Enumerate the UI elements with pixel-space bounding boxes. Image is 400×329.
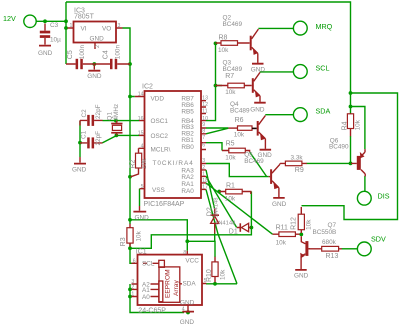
- svg-text:OSC1: OSC1: [151, 118, 169, 125]
- svg-text:PIC16F84AP: PIC16F84AP: [144, 201, 185, 208]
- svg-text:100n: 100n: [79, 45, 86, 60]
- svg-text:R11: R11: [276, 224, 288, 231]
- svg-text:R9: R9: [295, 167, 304, 174]
- svg-text:22pF: 22pF: [95, 104, 102, 119]
- svg-text:EEPROM: EEPROM: [165, 269, 172, 298]
- svg-text:5: 5: [204, 278, 207, 284]
- svg-text:IC2: IC2: [142, 83, 153, 90]
- svg-text:3: 3: [118, 23, 121, 29]
- svg-text:RA0: RA0: [181, 188, 194, 195]
- svg-text:D1: D1: [229, 229, 238, 236]
- svg-text:2: 2: [202, 165, 205, 171]
- svg-text:12V: 12V: [3, 14, 16, 23]
- svg-text:R13: R13: [326, 253, 339, 260]
- svg-text:10k: 10k: [225, 154, 236, 161]
- svg-text:Array: Array: [173, 280, 180, 296]
- svg-text:R7: R7: [225, 73, 234, 80]
- svg-text:7805T: 7805T: [74, 14, 95, 21]
- svg-text:SCL: SCL: [316, 63, 330, 72]
- svg-text:10k: 10k: [135, 230, 142, 241]
- svg-text:GND: GND: [72, 166, 87, 173]
- svg-text:24-C65P: 24-C65P: [138, 308, 166, 315]
- svg-text:R2: R2: [129, 159, 136, 168]
- svg-text:1: 1: [202, 171, 205, 177]
- svg-text:4MHz: 4MHz: [113, 104, 120, 121]
- svg-text:C4: C4: [103, 50, 110, 59]
- svg-text:RB5: RB5: [181, 109, 194, 116]
- svg-text:2: 2: [95, 45, 101, 48]
- svg-text:GND: GND: [272, 201, 287, 208]
- svg-text:100n: 100n: [115, 45, 122, 60]
- svg-text:SDA: SDA: [316, 106, 331, 115]
- svg-text:GND: GND: [180, 299, 195, 306]
- svg-text:MCLR\: MCLR\: [151, 146, 171, 153]
- svg-text:BC469: BC469: [223, 21, 243, 28]
- svg-text:VCC: VCC: [185, 257, 199, 264]
- svg-text:VI: VI: [81, 26, 87, 33]
- svg-text:GND: GND: [250, 106, 265, 113]
- svg-text:8: 8: [202, 128, 205, 134]
- svg-text:MRQ: MRQ: [316, 22, 333, 31]
- svg-text:10k: 10k: [225, 89, 236, 96]
- svg-text:R1: R1: [226, 182, 235, 189]
- svg-text:DIS: DIS: [378, 191, 390, 200]
- svg-text:SDA: SDA: [183, 281, 197, 288]
- svg-text:A0: A0: [142, 294, 150, 301]
- svg-text:13: 13: [202, 96, 208, 102]
- svg-text:R4: R4: [342, 121, 349, 130]
- svg-text:6: 6: [202, 142, 205, 148]
- svg-text:9: 9: [202, 122, 205, 128]
- svg-text:5: 5: [141, 184, 144, 190]
- svg-text:RB0: RB0: [181, 144, 194, 151]
- svg-text:R6: R6: [235, 117, 244, 124]
- svg-text:IC1: IC1: [136, 248, 147, 255]
- svg-text:17: 17: [202, 184, 208, 190]
- svg-text:680k: 680k: [322, 239, 337, 246]
- svg-text:10k: 10k: [355, 119, 362, 130]
- svg-text:10k: 10k: [305, 219, 312, 230]
- svg-text:BC550B: BC550B: [313, 229, 337, 236]
- svg-text:RA1: RA1: [181, 181, 194, 188]
- svg-text:1: 1: [70, 23, 73, 29]
- svg-text:D2: D2: [206, 207, 213, 216]
- svg-text:16: 16: [138, 116, 144, 122]
- svg-text:3.3k: 3.3k: [291, 154, 304, 161]
- svg-text:T0CKI/RA4: T0CKI/RA4: [152, 160, 193, 167]
- svg-text:GND: GND: [38, 50, 53, 57]
- svg-text:R3: R3: [120, 237, 127, 246]
- svg-text:18: 18: [202, 178, 208, 184]
- svg-text:11: 11: [202, 108, 207, 114]
- svg-text:C2: C2: [81, 109, 88, 118]
- svg-text:10k: 10k: [218, 47, 229, 54]
- svg-text:SCL: SCL: [142, 261, 155, 268]
- svg-text:3: 3: [202, 158, 205, 164]
- svg-text:22pF: 22pF: [95, 131, 102, 146]
- svg-text:4: 4: [141, 144, 144, 150]
- svg-text:14: 14: [138, 92, 144, 98]
- svg-text:10µ: 10µ: [50, 36, 61, 43]
- svg-text:4: 4: [182, 306, 185, 312]
- svg-text:10k: 10k: [276, 239, 287, 246]
- svg-text:12: 12: [202, 102, 208, 108]
- svg-text:10k: 10k: [219, 269, 226, 280]
- svg-text:10k: 10k: [141, 158, 148, 169]
- svg-text:GND: GND: [87, 73, 102, 80]
- svg-text:RB1: RB1: [181, 137, 194, 144]
- svg-text:OSC2: OSC2: [151, 133, 169, 140]
- svg-text:GND: GND: [251, 66, 266, 73]
- svg-text:RA2: RA2: [181, 174, 194, 181]
- svg-text:1N4148: 1N4148: [215, 221, 235, 227]
- svg-text:VDD: VDD: [151, 95, 165, 102]
- svg-text:1: 1: [131, 292, 134, 298]
- svg-text:GND: GND: [135, 214, 150, 221]
- svg-text:R12: R12: [291, 217, 298, 230]
- svg-text:C3: C3: [50, 22, 59, 29]
- svg-text:15: 15: [138, 131, 144, 137]
- svg-text:GND: GND: [180, 319, 195, 326]
- svg-text:10k: 10k: [234, 132, 245, 139]
- svg-text:1N4148: 1N4148: [213, 197, 219, 217]
- svg-text:GND: GND: [90, 36, 105, 43]
- svg-text:SDV: SDV: [371, 234, 386, 243]
- svg-text:BC489: BC489: [223, 66, 243, 73]
- svg-text:GND: GND: [258, 152, 273, 159]
- svg-text:VSS: VSS: [152, 187, 165, 194]
- svg-text:6: 6: [133, 259, 136, 265]
- svg-text:VO: VO: [102, 26, 111, 33]
- svg-text:R8: R8: [219, 34, 228, 41]
- svg-text:R5: R5: [226, 141, 235, 148]
- svg-text:2: 2: [131, 285, 134, 291]
- svg-text:BC490: BC490: [329, 143, 349, 150]
- svg-text:C1: C1: [80, 130, 87, 139]
- svg-text:10k: 10k: [225, 196, 236, 203]
- svg-text:C5: C5: [67, 50, 74, 59]
- svg-text:R10: R10: [206, 269, 213, 282]
- svg-text:BC469: BC469: [244, 158, 264, 165]
- svg-text:7: 7: [202, 135, 205, 141]
- svg-text:BC489: BC489: [230, 108, 250, 115]
- svg-text:A1: A1: [142, 287, 150, 294]
- svg-text:GND: GND: [294, 272, 309, 279]
- svg-text:8: 8: [183, 250, 186, 256]
